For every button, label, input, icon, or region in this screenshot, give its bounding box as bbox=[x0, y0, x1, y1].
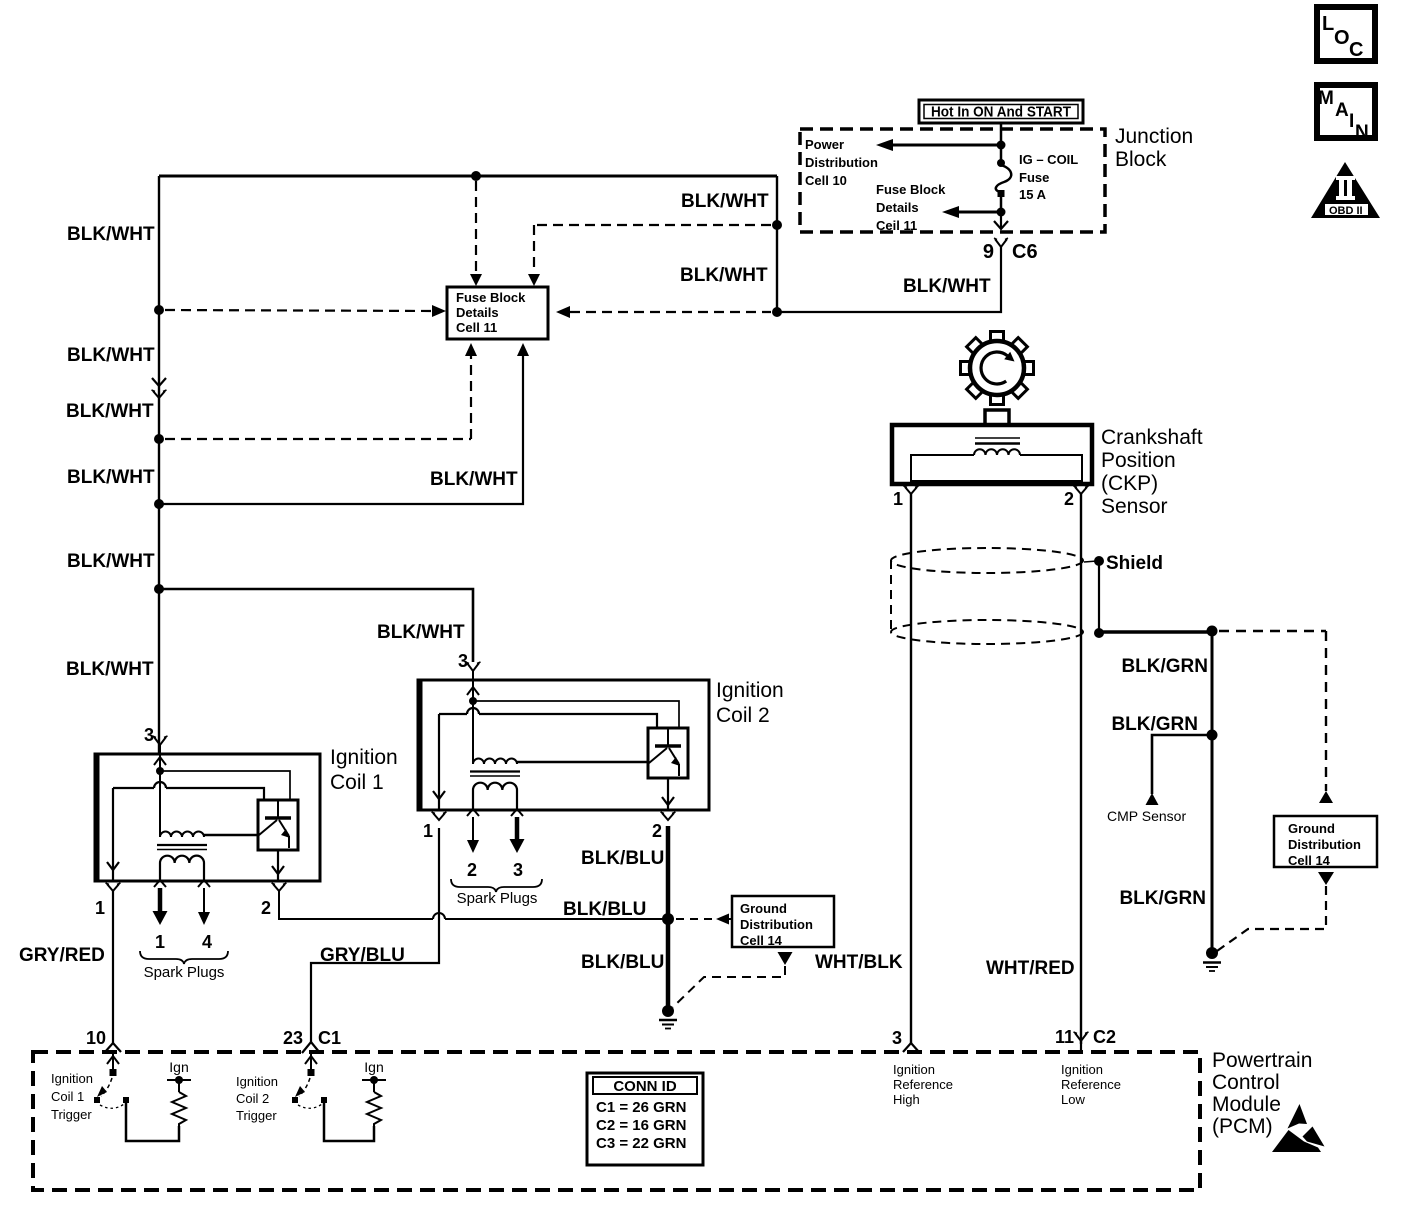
node shield tap lower bbox=[1094, 628, 1104, 638]
transistor driver coil 2 bbox=[648, 728, 688, 778]
wire WHT/RED CKP pin 2 to PCM pin 11 bbox=[1080, 494, 1082, 1044]
svg-text:CMP Sensor: CMP Sensor bbox=[1107, 808, 1186, 824]
svg-text:1: 1 bbox=[155, 932, 165, 952]
svg-text:BLK/GRN: BLK/GRN bbox=[1119, 888, 1206, 909]
label Ignition Reference High bbox=[893, 1062, 953, 1107]
svg-text:Ignition: Ignition bbox=[236, 1074, 278, 1089]
svg-text:BLK/BLU: BLK/BLU bbox=[563, 899, 646, 920]
svg-text:9: 9 bbox=[983, 241, 994, 263]
arrow dashed to ground distribution cell 14 (left box) bbox=[676, 914, 733, 925]
svg-text:Ign: Ign bbox=[169, 1059, 188, 1075]
arrow down from ground distribution box (right) bbox=[1318, 872, 1334, 885]
svg-text:Ignition: Ignition bbox=[893, 1062, 935, 1077]
transformer coil 2 secondary bbox=[473, 783, 517, 810]
node shield tap upper bbox=[1084, 556, 1104, 566]
svg-text:Ground: Ground bbox=[740, 901, 787, 916]
svg-text:A: A bbox=[1335, 100, 1349, 121]
svg-text:Shield: Shield bbox=[1106, 553, 1163, 574]
svg-text:L: L bbox=[1322, 13, 1334, 35]
wire coil 1 junction to driver collector bbox=[160, 771, 290, 800]
wire coil 1 pin 2 to BLK/BLU junction (with hop) bbox=[279, 891, 664, 919]
wire dashed from top junction to fuse block details bbox=[470, 181, 482, 286]
node fuse top junction bbox=[997, 141, 1006, 150]
svg-text:Ceil 11: Ceil 11 bbox=[876, 218, 917, 233]
svg-text:Details: Details bbox=[456, 305, 499, 320]
node left wire junction 1 bbox=[154, 305, 164, 315]
svg-text:C6: C6 bbox=[1012, 241, 1038, 263]
wire WHT/BLK CKP pin 1 to PCM pin 3 bbox=[910, 494, 912, 1044]
wire BLK/WHT from C6 down and left bbox=[779, 247, 1001, 312]
label Fuse Block Details Cell 11 (junction block) bbox=[876, 182, 946, 233]
wire coil 1 B+ internal with up arrow bbox=[154, 754, 166, 771]
arrow to Power Distribution Cell 10 bbox=[876, 139, 1001, 151]
ground distribution cell 14 box (left) bbox=[732, 896, 834, 948]
svg-text:Ign: Ign bbox=[364, 1059, 383, 1075]
node fuse bottom junction bbox=[997, 208, 1006, 217]
arrow to Fuse Block Details Cell 11 bbox=[942, 206, 1001, 218]
wire branch to CMP sensor bbox=[1146, 735, 1213, 805]
wire GRY/BLU PCM pin 23 to coil 2 pin 1 bbox=[311, 828, 439, 1044]
node BLK/GRN CMP junction bbox=[1207, 730, 1218, 741]
connector inline splice on left wire bbox=[152, 378, 167, 398]
switch ignition coil 1 trigger bbox=[94, 1052, 129, 1108]
svg-text:Spark Plugs: Spark Plugs bbox=[144, 964, 225, 981]
wire dashed from left junction 2 up into fuse box bottom bbox=[165, 343, 477, 439]
label spark plugs 2 and 3 bbox=[451, 860, 542, 907]
label Power Distribution Cell 10 bbox=[805, 137, 878, 188]
transistor driver coil 1 bbox=[258, 800, 298, 850]
svg-text:Fuse Block: Fuse Block bbox=[456, 290, 526, 305]
svg-text:2: 2 bbox=[467, 860, 477, 880]
label Powertrain Control Module (PCM) bbox=[1212, 1049, 1312, 1138]
svg-text:Spark Plugs: Spark Plugs bbox=[457, 890, 538, 907]
wire coil 1 emitter to pin 2 bbox=[272, 850, 284, 881]
label IG-COIL Fuse 15 A bbox=[1019, 152, 1078, 202]
wire shield to BLK/GRN junction (thick) bbox=[1099, 630, 1212, 634]
shield cylinder upper ring bbox=[891, 548, 1083, 573]
node BLK/GRN top junction bbox=[1207, 626, 1218, 637]
svg-text:BLK/BLU: BLK/BLU bbox=[581, 952, 664, 973]
wire shield drain bbox=[1098, 561, 1100, 633]
svg-text:3: 3 bbox=[892, 1028, 902, 1048]
svg-text:Ignition: Ignition bbox=[330, 746, 398, 769]
connector PCM pin 11 C2 bbox=[1055, 1027, 1116, 1052]
node left wire junction 4 bbox=[154, 584, 164, 594]
svg-text:C1 = 26 GRN: C1 = 26 GRN bbox=[596, 1099, 686, 1116]
wire GRY/RED coil 1 pin 1 to PCM pin 10 bbox=[112, 891, 114, 1044]
svg-text:2: 2 bbox=[1064, 489, 1074, 509]
transformer coil 1 core bbox=[157, 845, 207, 850]
svg-text:BLK/WHT: BLK/WHT bbox=[680, 265, 768, 286]
wire coil 1 junction down to primary bbox=[159, 771, 161, 837]
CKP internal frame bbox=[911, 455, 1082, 481]
ignition coil 1 box bbox=[95, 754, 320, 881]
node right wire junction lower bbox=[772, 307, 782, 317]
svg-text:Position: Position bbox=[1101, 449, 1176, 472]
svg-text:Reference: Reference bbox=[1061, 1077, 1121, 1092]
connector CKP pin 2 bbox=[1064, 486, 1089, 509]
svg-text:C3 = 22 GRN: C3 = 22 GRN bbox=[596, 1135, 686, 1152]
svg-text:Module: Module bbox=[1212, 1093, 1281, 1116]
node top wire junction bbox=[471, 171, 481, 181]
svg-text:C: C bbox=[1349, 39, 1363, 61]
svg-text:Powertrain: Powertrain bbox=[1212, 1049, 1312, 1072]
svg-text:CONN ID: CONN ID bbox=[613, 1078, 677, 1095]
svg-text:WHT/RED: WHT/RED bbox=[986, 958, 1075, 979]
svg-text:4: 4 bbox=[202, 932, 212, 952]
wire BLK/GRN lower to ground (thick) bbox=[1211, 735, 1214, 950]
CONN ID table bbox=[587, 1073, 703, 1165]
node left wire junction 3 bbox=[154, 499, 164, 509]
svg-text:BLK/WHT: BLK/WHT bbox=[67, 467, 155, 488]
spark plug 3 arrow (thick) bbox=[510, 817, 525, 853]
svg-text:1: 1 bbox=[893, 489, 903, 509]
powertrain control module dashed box bbox=[33, 1052, 1200, 1190]
svg-text:1: 1 bbox=[95, 898, 105, 918]
wire switch 2 to resistor 2 bbox=[324, 1103, 374, 1141]
svg-text:15 A: 15 A bbox=[1019, 187, 1047, 202]
ignition coil 2 box bbox=[418, 680, 709, 810]
connector coil 2 pin 2 bbox=[652, 812, 676, 841]
connector coil 1 pin 2 bbox=[261, 883, 287, 918]
wire solid from left junction 4 to ignition coil 2 bbox=[159, 589, 473, 662]
wire coil 2 pin 1 internal vertical with down arrow bbox=[433, 714, 445, 810]
ground symbol BLK/BLU bbox=[659, 1005, 677, 1029]
connector pin 3 coil 2 bbox=[466, 662, 481, 681]
wire dashed from right junction to fuse block details top bbox=[528, 225, 771, 286]
svg-text:Fuse: Fuse bbox=[1019, 170, 1049, 185]
svg-text:Trigger: Trigger bbox=[236, 1108, 277, 1123]
svg-text:Ground: Ground bbox=[1288, 821, 1335, 836]
svg-text:BLK/WHT: BLK/WHT bbox=[903, 276, 991, 297]
node left wire junction 2 bbox=[154, 434, 164, 444]
svg-text:C2 = 16 GRN: C2 = 16 GRN bbox=[596, 1117, 686, 1134]
svg-text:Trigger: Trigger bbox=[51, 1107, 92, 1122]
svg-text:WHT/BLK: WHT/BLK bbox=[815, 952, 903, 973]
svg-text:Distribution: Distribution bbox=[1288, 837, 1361, 852]
svg-text:Cell 11: Cell 11 bbox=[456, 320, 497, 335]
svg-text:2: 2 bbox=[652, 821, 662, 841]
svg-text:Low: Low bbox=[1061, 1092, 1085, 1107]
wire left vertical BLK/WHT main bbox=[158, 176, 160, 754]
connector coil 2 spark outputs at box edge bbox=[467, 809, 523, 816]
connector PCM pin 10 bbox=[86, 1028, 121, 1052]
node right wire junction upper bbox=[772, 220, 782, 230]
fuse block details box bbox=[447, 287, 548, 339]
svg-text:High: High bbox=[893, 1092, 920, 1107]
svg-text:BLK/WHT: BLK/WHT bbox=[430, 469, 518, 490]
svg-text:Coil 1: Coil 1 bbox=[330, 771, 384, 794]
svg-text:GRY/BLU: GRY/BLU bbox=[320, 945, 405, 966]
wire coil 2 emitter to pin 2 bbox=[662, 778, 674, 810]
connector CKP pin 1 bbox=[893, 486, 919, 509]
svg-text:IG – COIL: IG – COIL bbox=[1019, 152, 1078, 167]
svg-text:O: O bbox=[1334, 27, 1350, 49]
wire BLK/GRN upper (thick) bbox=[1211, 631, 1214, 735]
resistor Ign pullup 2 bbox=[362, 1059, 386, 1127]
transformer coil 2 primary bbox=[473, 759, 649, 765]
spark plug 1 arrow (thick) bbox=[153, 888, 168, 925]
svg-text:Fuse Block: Fuse Block bbox=[876, 182, 946, 197]
svg-text:BLK/WHT: BLK/WHT bbox=[66, 659, 154, 680]
connector PCM pin 3 bbox=[892, 1028, 919, 1052]
connector PCM pin 23 C1 bbox=[283, 1028, 341, 1053]
svg-text:1: 1 bbox=[423, 821, 433, 841]
svg-text:(PCM): (PCM) bbox=[1212, 1115, 1273, 1138]
symbol OBD II triangle bbox=[1311, 162, 1380, 218]
svg-text:23: 23 bbox=[283, 1028, 303, 1048]
ESD warning symbol bbox=[1272, 1104, 1325, 1152]
connector C6 pin 9 bbox=[983, 238, 1038, 263]
svg-text:Ignition: Ignition bbox=[51, 1071, 93, 1086]
svg-text:Ignition: Ignition bbox=[1061, 1062, 1103, 1077]
transformer coil 1 primary bbox=[160, 832, 259, 838]
wire fuse to C6 with down arrow bbox=[994, 212, 1008, 229]
svg-text:Ignition: Ignition bbox=[716, 679, 784, 702]
label Ignition Reference Low bbox=[1061, 1062, 1121, 1107]
svg-text:3: 3 bbox=[513, 860, 523, 880]
wire solid from left junction 3 up into fuse box bottom bbox=[159, 343, 529, 504]
svg-text:Cell 14: Cell 14 bbox=[740, 933, 783, 948]
CKP sensor mount tab bbox=[985, 410, 1009, 425]
svg-text:Distribution: Distribution bbox=[740, 917, 813, 932]
svg-text:BLK/WHT: BLK/WHT bbox=[67, 551, 155, 572]
label Hot In ON And START box bbox=[919, 100, 1083, 123]
svg-text:OBD II: OBD II bbox=[1329, 205, 1363, 217]
svg-text:2: 2 bbox=[261, 898, 271, 918]
connector coil 1 spark outputs at box edge bbox=[154, 880, 210, 887]
svg-text:BLK/BLU: BLK/BLU bbox=[581, 848, 664, 869]
arrow down from ground distribution box (left) bbox=[778, 952, 793, 965]
svg-text:BLK/WHT: BLK/WHT bbox=[377, 622, 465, 643]
svg-text:I: I bbox=[1349, 111, 1354, 132]
wire dashed ground reference path to ground node bbox=[673, 966, 785, 1007]
svg-text:Sensor: Sensor bbox=[1101, 495, 1168, 518]
label spark plugs 1 and 4 bbox=[140, 932, 228, 981]
junction block dashed box bbox=[800, 129, 1105, 232]
svg-text:C1: C1 bbox=[318, 1028, 341, 1048]
node BLK/BLU junction bbox=[662, 913, 674, 925]
svg-text:Details: Details bbox=[876, 200, 919, 215]
svg-text:N: N bbox=[1355, 122, 1369, 143]
wire from hot box to junction block bbox=[1000, 123, 1003, 145]
symbol MAIN box bbox=[1317, 85, 1375, 143]
svg-text:Distribution: Distribution bbox=[805, 155, 878, 170]
svg-text:BLK/WHT: BLK/WHT bbox=[681, 191, 769, 212]
wire coil 1 pin 1 internal vertical with down arrow bbox=[107, 788, 119, 881]
connector coil 1 pin 1 bbox=[95, 883, 121, 918]
symbol LOC box bbox=[1317, 7, 1375, 61]
label Ignition Coil 2 Trigger bbox=[236, 1074, 278, 1123]
svg-text:Cell 10: Cell 10 bbox=[805, 173, 847, 188]
svg-text:Coil 2: Coil 2 bbox=[236, 1091, 269, 1106]
svg-text:Reference: Reference bbox=[893, 1077, 953, 1092]
svg-text:BLK/WHT: BLK/WHT bbox=[66, 401, 154, 422]
spark plug 2 arrow bbox=[467, 817, 479, 853]
wire coil 1 pin 1 internal to driver base (with hop) bbox=[113, 782, 264, 800]
wire dashed from right junction into fuse box right side bbox=[556, 306, 771, 318]
wire dashed shield junction to ground distribution (right) bbox=[1219, 631, 1333, 803]
transformer coil 1 secondary bbox=[160, 856, 204, 881]
svg-text:BLK/GRN: BLK/GRN bbox=[1111, 714, 1198, 735]
resistor Ign pullup 1 bbox=[167, 1059, 191, 1127]
node coil 1 internal junction bbox=[156, 767, 164, 775]
svg-text:3: 3 bbox=[144, 725, 154, 745]
label Ignition Coil 1 bbox=[330, 746, 398, 794]
svg-text:11: 11 bbox=[1055, 1027, 1074, 1047]
svg-text:BLK/WHT: BLK/WHT bbox=[67, 224, 155, 245]
shield cylinder left side bbox=[890, 560, 892, 632]
fuse IG-COIL 15A bbox=[996, 145, 1011, 212]
label Crankshaft Position (CKP) Sensor bbox=[1101, 426, 1203, 518]
svg-text:BLK/WHT: BLK/WHT bbox=[67, 345, 155, 366]
wire top horizontal BLK/WHT bbox=[159, 175, 777, 178]
label Junction Block bbox=[1115, 125, 1193, 171]
connector pin 3 coil 1 bbox=[153, 736, 168, 754]
wire coil 2 B+ internal with up arrow bbox=[467, 681, 479, 701]
svg-text:GRY/RED: GRY/RED bbox=[19, 945, 105, 966]
wire coil 2 junction to driver collector bbox=[473, 701, 679, 728]
svg-text:Cell 14: Cell 14 bbox=[1288, 853, 1331, 868]
svg-text:Control: Control bbox=[1212, 1071, 1280, 1094]
svg-text:Crankshaft: Crankshaft bbox=[1101, 426, 1203, 449]
wire switch 1 to resistor 1 bbox=[126, 1103, 179, 1141]
svg-text:Power: Power bbox=[805, 137, 844, 152]
svg-text:3: 3 bbox=[458, 651, 468, 671]
connector coil 2 pin 1 bbox=[423, 812, 447, 841]
spark plug 4 arrow bbox=[198, 888, 210, 925]
reluctor gear icon bbox=[961, 332, 1034, 405]
switch ignition coil 2 trigger bbox=[292, 1053, 327, 1108]
CKP pickup coil core bbox=[975, 438, 1020, 444]
wire coil 2 junction down to primary bbox=[472, 701, 474, 764]
CKP pickup coil bbox=[974, 449, 1020, 455]
svg-text:C2: C2 bbox=[1093, 1027, 1116, 1047]
wire dashed ground reference to BLK/GRN ground bbox=[1217, 886, 1326, 951]
node coil 2 internal junction bbox=[469, 697, 477, 705]
ground symbol BLK/GRN bbox=[1203, 947, 1221, 971]
svg-text:Coil 1: Coil 1 bbox=[51, 1089, 84, 1104]
crankshaft position sensor box bbox=[892, 425, 1092, 484]
svg-text:Junction: Junction bbox=[1115, 125, 1193, 148]
wire BLK/BLU coil 2 pin 2 to ground (thick) bbox=[666, 826, 671, 1008]
svg-text:(CKP): (CKP) bbox=[1101, 472, 1158, 495]
svg-text:M: M bbox=[1318, 88, 1334, 109]
svg-text:Coil 2: Coil 2 bbox=[716, 704, 770, 727]
svg-text:BLK/GRN: BLK/GRN bbox=[1121, 656, 1208, 677]
svg-text:Block: Block bbox=[1115, 148, 1167, 171]
wire dashed from left junction 1 into fuse box left side bbox=[165, 305, 446, 317]
wire coil 2 pin 1 internal to driver base (with hop) bbox=[439, 708, 657, 728]
wire right vertical to C6 feed bbox=[776, 176, 778, 312]
transformer coil 2 core bbox=[470, 772, 520, 777]
label Ignition Coil 2 bbox=[716, 679, 784, 727]
svg-text:Hot In ON And START: Hot In ON And START bbox=[931, 104, 1071, 121]
label Ignition Coil 1 Trigger bbox=[51, 1071, 93, 1122]
svg-text:10: 10 bbox=[86, 1028, 106, 1048]
ground distribution cell 14 box (right) bbox=[1274, 816, 1377, 868]
shield cylinder lower ring bbox=[891, 620, 1083, 644]
